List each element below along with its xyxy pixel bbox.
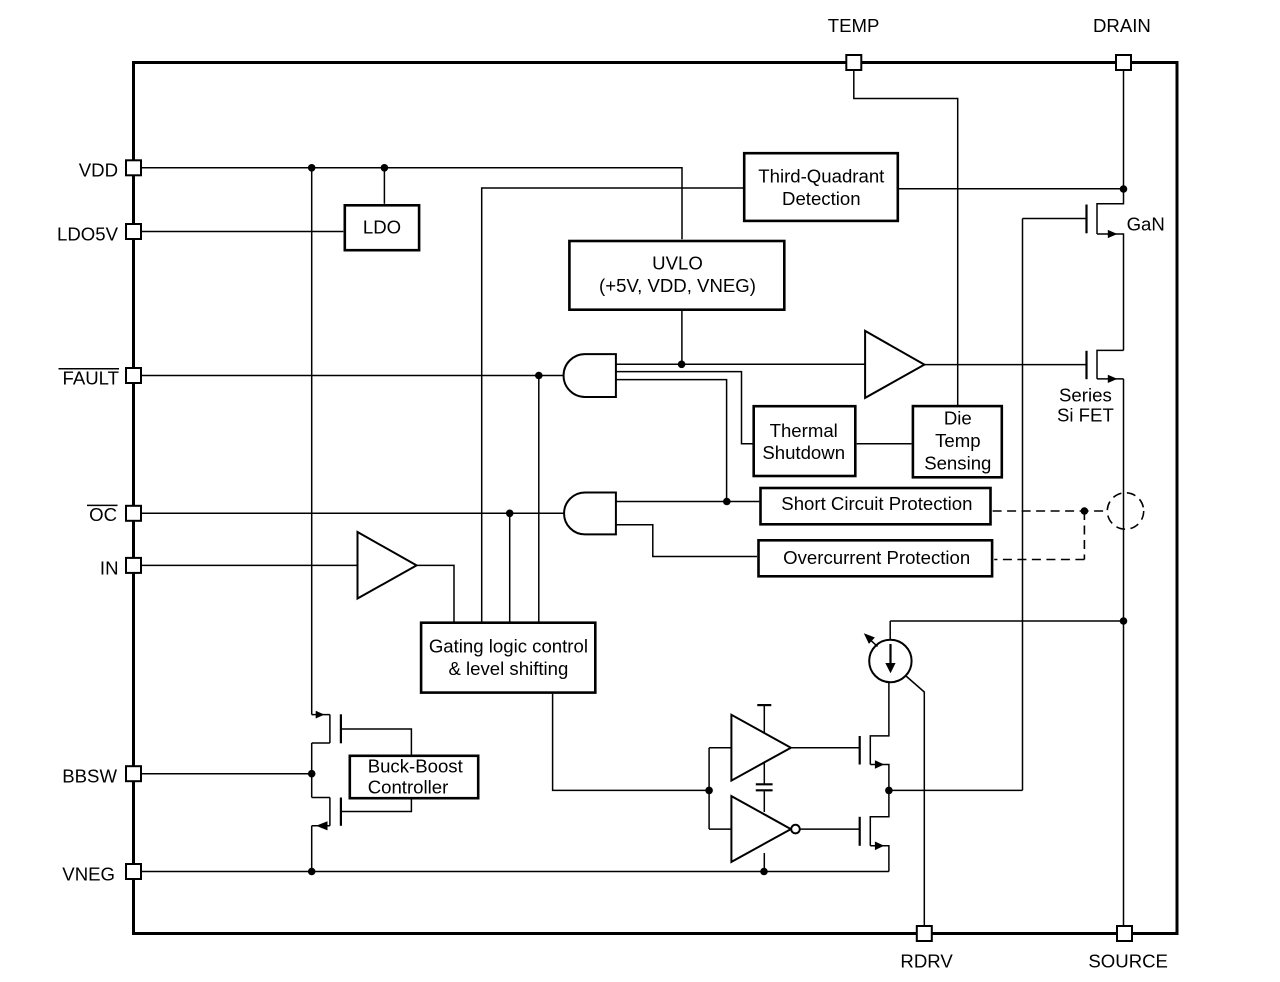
svg-text:IN: IN [100, 557, 119, 578]
wire driver input tree [709, 748, 731, 829]
svg-text:FAULT: FAULT [63, 368, 119, 389]
wire OC node down to gating logic [509, 513, 511, 621]
pin SOURCE [1088, 926, 1168, 971]
svg-text:VNEG: VNEG [62, 863, 115, 884]
node VNEG-inverter junction [760, 868, 768, 876]
wire VDD rail horizontal into UVLO top [141, 168, 682, 239]
pin DRAIN [1093, 15, 1151, 70]
node VDD-rail junction [308, 164, 316, 172]
svg-text:RDRV: RDRV [900, 950, 953, 971]
svg-text:Third-Quadrant: Third-Quadrant [758, 166, 885, 187]
svg-text:OC: OC [89, 504, 117, 525]
node BBSW junction [308, 770, 316, 778]
svg-text:GaN: GaN [1127, 214, 1165, 235]
wire buffer U5 output to Q3 gate [791, 747, 860, 749]
pin LDO5V [57, 223, 141, 244]
svg-text:Thermal: Thermal [770, 420, 838, 441]
svg-text:Temp: Temp [935, 430, 980, 451]
wire current source to RDRV [906, 676, 924, 926]
block Buck-Boost Controller [350, 755, 478, 798]
AND gate U4 (overcurrent logic, inputs on right) [564, 493, 616, 535]
svg-text:Sensing: Sensing [924, 452, 991, 473]
svg-text:SOURCE: SOURCE [1088, 950, 1168, 971]
wire inverter U6 ground tap [763, 853, 765, 872]
pin VNEG [62, 863, 141, 884]
node SOURCE junction [1120, 617, 1128, 625]
svg-text:Shutdown: Shutdown [762, 442, 845, 463]
pin TEMP [828, 15, 880, 70]
wire Third-Quadrant output to DRAIN net [898, 188, 1123, 190]
block Overcurrent Protection [759, 540, 993, 576]
transistor Q2 (buck-boost low side) [312, 798, 412, 831]
wire BBSW rail segments [311, 743, 313, 872]
pin BBSW [62, 766, 141, 787]
node short-circuit junction [723, 498, 731, 506]
node OC junction [506, 510, 514, 518]
wire Thermal Shutdown to Die Temp Sensing [857, 443, 912, 445]
transistor Q3 (driver pull-up FET) [860, 682, 889, 790]
node FAULT junction [535, 372, 543, 380]
IC boundary [134, 63, 1178, 934]
svg-text:Short Circuit Protection: Short Circuit Protection [781, 493, 972, 514]
pin RDRV [900, 926, 953, 971]
pin VDD [79, 160, 141, 181]
svg-text:VDD: VDD [79, 160, 118, 181]
dashed wire Short Circuit Protection sense [993, 510, 1108, 512]
svg-text:Si FET: Si FET [1057, 404, 1114, 425]
wire UVLO bottom to AND1 input [681, 310, 683, 364]
supply tap on buffer U5 [757, 705, 771, 733]
wire AND1 input B from Thermal Shutdown [616, 372, 753, 444]
svg-text:(+5V, VDD, VNEG): (+5V, VDD, VNEG) [599, 275, 756, 296]
current sense probe dashed circle [1107, 493, 1143, 529]
transistor Q4 (driver pull-down FET) [860, 790, 889, 871]
block Thermal Shutdown [754, 406, 856, 476]
wire VDD vertical rail to BBSW upper FET [311, 168, 313, 715]
node DRAIN junction [1120, 185, 1128, 193]
wire driver output node to GaN gate [889, 219, 1087, 791]
block UVLO [569, 241, 784, 310]
svg-text:Detection: Detection [782, 188, 861, 209]
transistor GaN FET [1087, 188, 1124, 350]
svg-text:LDO: LDO [363, 217, 401, 238]
wire DRAIN pin stub [1123, 70, 1125, 188]
wire buffer U2 output to Series FET gate [924, 364, 1086, 366]
buffer U3 (IN input buffer) [358, 532, 417, 599]
svg-text:UVLO: UVLO [652, 253, 703, 274]
wire AND1 input A / buffer U2 input [616, 363, 865, 365]
inverter U6 (gate drive pull-down) [731, 796, 859, 862]
wire SOURCE net vertical [1123, 379, 1125, 926]
svg-text:TEMP: TEMP [828, 15, 880, 36]
svg-text:Controller: Controller [368, 776, 449, 797]
block Short Circuit Protection [761, 488, 991, 524]
block LDO [345, 205, 419, 250]
wire current source top to SOURCE net [890, 621, 1123, 641]
wire Short Circuit Protection to AND gates [616, 501, 759, 503]
wire VDD drop to LDO [383, 168, 385, 204]
wire LDO5V to LDO [141, 231, 343, 233]
pin FAULT [59, 368, 142, 389]
wire FAULT to AND1 output [141, 375, 565, 377]
wire gating logic output to driver input node [553, 694, 710, 791]
node sense junction [1081, 507, 1089, 515]
svg-text:Buck-Boost: Buck-Boost [368, 755, 464, 776]
wire buffer U3 output to gating logic [417, 565, 454, 621]
svg-text:DRAIN: DRAIN [1093, 15, 1151, 36]
wire Third-Quadrant left lead down to gating logic [482, 188, 744, 622]
svg-text:BBSW: BBSW [62, 766, 117, 787]
wire AND2 input from Overcurrent Protection [616, 525, 757, 557]
node LDO junction [381, 164, 389, 172]
transistor Q1 (buck-boost high side) [312, 711, 412, 755]
dashed wire Overcurrent Protection sense [994, 511, 1084, 560]
svg-text:& level shifting: & level shifting [448, 658, 568, 679]
pin OC [87, 504, 141, 525]
wire TEMP to Die Temp Sensing [854, 70, 958, 406]
current source I1 [864, 633, 912, 682]
wire FAULT node down to gating logic [538, 376, 540, 622]
node UVLO-AND1 junction [678, 361, 686, 369]
svg-text:Overcurrent Protection: Overcurrent Protection [783, 547, 970, 568]
wire VNEG rail [141, 871, 889, 873]
block Gating logic control & level shifting [421, 623, 595, 693]
node driver input junction [705, 787, 713, 795]
wire OC to AND2 output [141, 512, 565, 514]
wire AND1 input C from Short Circuit Protection [616, 380, 727, 502]
block Die Temp Sensing [913, 406, 1002, 477]
block Third-Quadrant Detection [744, 153, 898, 221]
wire IN to buffer U3 [141, 564, 358, 566]
buffer U5 (gate drive pull-up) [731, 715, 791, 781]
buffer U2 (Series FET gate driver) [865, 331, 924, 398]
capacitor C1 [756, 763, 773, 812]
wire BBSW to half-bridge node [141, 773, 312, 775]
pin IN [100, 557, 141, 578]
svg-text:Gating logic control: Gating logic control [429, 635, 588, 656]
svg-text:Series: Series [1059, 385, 1112, 406]
AND gate U1 (fault logic, inputs on right) [564, 354, 616, 397]
svg-text:Die: Die [944, 408, 972, 429]
node VNEG-rail junction [308, 868, 316, 876]
svg-text:LDO5V: LDO5V [57, 223, 119, 244]
transistor Series Si FET [1087, 350, 1124, 383]
label Series Si FET [1057, 385, 1114, 426]
node driver output junction [885, 787, 893, 795]
